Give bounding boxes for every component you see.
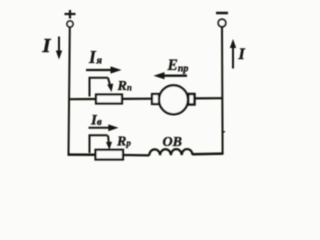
svg-text:I: I xyxy=(42,35,52,57)
svg-text:I: I xyxy=(238,46,246,63)
svg-text:ОВ: ОВ xyxy=(163,135,182,150)
